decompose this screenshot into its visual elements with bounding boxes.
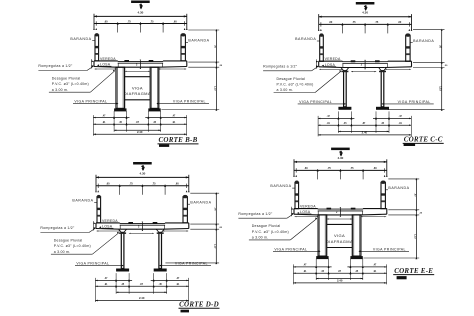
bearing pad left web [119,232,126,234]
bottom flange right girder [350,256,362,259]
svg-text:.75: .75 [129,183,133,186]
viga principal right (web) [379,68,382,71]
under-slab dimension left cantilever [319,68,342,70]
svg-text:.75: .75 [327,167,331,170]
svg-text:.75: .75 [150,20,154,23]
scale bar above CORTE E-E [331,148,350,151]
top segment dimension line [96,185,189,187]
svg-text:Rompegotas a 1/2": Rompegotas a 1/2" [238,212,273,216]
svg-text:4.30: 4.30 [137,10,143,14]
svg-text:BARANDA: BARANDA [188,39,209,43]
section cut symbol CORTE D-D [142,165,144,170]
bearing pad right web [379,71,386,73]
svg-text:CORTE D-D: CORTE D-D [179,300,219,308]
scale bar above CORTE D-D [133,162,152,165]
svg-text:P.V.C. ø3" (L=0.40m): P.V.C. ø3" (L=0.40m) [54,244,91,248]
svg-text:.75: .75 [152,183,156,186]
right vertical dimension chain [441,30,443,110]
viga principal left (web) [341,68,349,71]
under-slab dimension centre [327,218,352,220]
viga diafragma (diaphragm) [125,76,151,78]
svg-text:Desague Pluvial: Desague Pluvial [54,239,83,243]
svg-text:VEREDA: VEREDA [300,205,316,209]
right vertical dimension chain [215,193,217,263]
bottom dimension row 1 (.47) [93,117,129,119]
viga principal right (web) [156,229,159,232]
svg-text:DIAFRAGMA: DIAFRAGMA [124,91,151,96]
svg-text:P.V.C. ø3" (L=0.40m): P.V.C. ø3" (L=0.40m) [277,83,314,87]
viga principal left (column) [318,215,327,256]
under-slab dimension centre [125,70,150,72]
right vertical dimension chain [215,30,217,110]
svg-text:.60: .60 [329,21,333,24]
title scale bar CORTE E-E [397,276,407,279]
svg-text:VEREDA: VEREDA [102,219,118,223]
railing post (baranda) left [320,35,324,61]
bottom dimension row 1 (.47) [318,117,354,119]
title scale bar CORTE B-B [159,144,169,147]
deck slab outline [95,223,97,229]
railing post (baranda) left [295,182,299,208]
bottom dimension row 3 [116,291,167,293]
svg-text:LOSA: LOSA [100,63,111,67]
svg-text:VEREDA: VEREDA [325,57,341,61]
svg-text:.75: .75 [127,20,131,23]
slab surface pad left [124,60,129,62]
svg-text:4.30: 4.30 [139,171,145,175]
bottom dimension row 2 [93,123,186,125]
svg-text:2.40: 2.40 [139,296,145,300]
deck edge thickness arrows left [93,222,95,224]
deck edge thickness arrows left [316,61,318,63]
svg-text:CORTE C-C: CORTE C-C [404,136,443,144]
svg-text:4.30: 4.30 [362,11,368,15]
svg-text:BARANDA: BARANDA [190,200,211,204]
railing post (baranda) right [183,197,187,223]
svg-text:BARANDA: BARANDA [413,39,434,43]
svg-text:.60: .60 [106,183,110,186]
slab surface pad right [149,60,154,62]
bottom flange left girder [114,108,126,111]
svg-text:1.15: 1.15 [439,86,441,91]
bottom dimension row 4 (2.40) [318,134,411,136]
bottom dimension row 2 [318,124,411,126]
deck edge thickness arrows left [291,208,293,210]
svg-text:2.40: 2.40 [337,279,343,283]
bottom dimension row 4 (2.40) [293,282,386,284]
svg-text:.60: .60 [373,167,377,170]
title scale bar CORTE C-C [404,143,416,146]
bottom dimension row 3 [338,130,389,132]
svg-text:P.V.C. ø3" (L=0.40m): P.V.C. ø3" (L=0.40m) [252,230,289,234]
bottom flange right girder [376,107,389,110]
svg-text:1.15: 1.15 [213,86,215,91]
svg-text:P.V.C. ø3" (L=0.40m): P.V.C. ø3" (L=0.40m) [52,82,89,86]
section cut symbol CORTE E-E [340,151,342,156]
deck slab outline [293,209,295,215]
viga principal right (column) [150,67,159,108]
svg-text:VIGA PRINCIPAL: VIGA PRINCIPAL [398,100,431,104]
bottom dimension row 3 [114,129,161,131]
svg-text:VIGA PRINCIPAL: VIGA PRINCIPAL [274,247,307,251]
slab surface pad left [351,60,356,62]
svg-text:LOSA: LOSA [325,63,336,67]
svg-text:Rompegotas a 1/2": Rompegotas a 1/2" [38,64,73,68]
scale bar above CORTE B-B [131,1,150,4]
right vertical dimension chain [415,179,417,258]
svg-text:4.30: 4.30 [337,156,343,160]
bottom dimension row 4 (2.40) [93,133,186,135]
svg-text:.75: .75 [352,21,356,24]
bottom dimension row 4 (2.40) [95,300,188,302]
viga principal right (column) [352,215,361,256]
section cut symbol CORTE C-C [365,5,367,10]
svg-text:Rompegotas a 1/2": Rompegotas a 1/2" [263,64,298,68]
railing post (baranda) right [181,35,185,61]
bottom flange left girder [316,256,328,259]
svg-text:Rompegotas a 1/2": Rompegotas a 1/2" [40,226,75,230]
slab surface pad left [327,208,332,210]
svg-text:a 3.00 m.: a 3.00 m. [252,236,269,240]
top segment dimension line [94,23,187,25]
slab surface pad right [351,208,356,210]
bearing pad right web [157,232,164,234]
svg-text:VIGA PRINCIPAL: VIGA PRINCIPAL [74,100,107,104]
railing post (baranda) left [97,197,101,223]
railing post (baranda) left [95,35,99,61]
slab surface pad right [153,222,158,224]
deck slab outline [93,61,95,67]
deck edge thickness arrows left [91,60,93,62]
svg-text:.60: .60 [398,21,402,24]
svg-text:LOSA: LOSA [300,210,311,214]
svg-text:BARANDA: BARANDA [72,199,93,203]
bottom dim extension lines [317,116,319,136]
scale bar above CORTE C-C [356,2,375,5]
svg-text:VIGA PRINCIPAL: VIGA PRINCIPAL [173,100,206,104]
svg-text:LOSA: LOSA [102,225,113,229]
railing post (baranda) right [406,35,410,61]
bottom dimension row 1 (.47) [95,279,132,281]
svg-text:BARANDA: BARANDA [270,184,291,188]
svg-text:Desague Pluvial: Desague Pluvial [252,224,281,228]
under-slab dimension right cantilever [163,230,189,232]
bottom flange left girder [338,107,351,110]
bottom dim extension lines [94,278,96,302]
svg-text:BARANDA: BARANDA [70,37,91,41]
top segment dimension line [319,23,412,25]
viga diafragma (diaphragm) [327,223,353,225]
svg-text:.60: .60 [173,20,177,23]
svg-text:VEREDA: VEREDA [100,57,116,61]
section cut symbol CORTE B-B [140,4,142,9]
bottom flange left girder [116,269,129,272]
bottom flange right girder [154,269,167,272]
svg-text:VIGA: VIGA [132,85,143,90]
svg-text:VIGA: VIGA [334,233,345,238]
bearing pad left web [341,71,348,73]
slab thickness dim .20 [364,61,366,68]
viga principal left (column) [116,67,125,108]
deck slab outline [318,61,320,67]
svg-text:2.40: 2.40 [137,130,143,134]
title scale bar CORTE D-D [181,310,190,313]
viga principal left (web) [119,229,127,232]
svg-text:Desague Pluvial: Desague Pluvial [52,77,81,81]
bottom dimension row 3 [316,278,363,280]
svg-text:a 3.00 m.: a 3.00 m. [54,250,71,254]
slab thickness dim .20 [139,61,141,68]
slab surface pad left [128,222,133,224]
svg-text:DIAFRAGMA: DIAFRAGMA [326,239,353,244]
bottom dimension row 2 [95,285,188,287]
bottom dimension row 1 (.47) [293,266,331,268]
svg-text:CORTE E-E: CORTE E-E [394,267,433,275]
svg-text:BARANDA: BARANDA [295,37,316,41]
svg-text:Desague Pluvial: Desague Pluvial [277,77,306,81]
under-slab dimension left cantilever [295,216,319,218]
svg-text:1.15: 1.15 [213,244,215,249]
svg-text:1.15: 1.15 [413,234,415,239]
svg-text:a 3.00 m.: a 3.00 m. [52,88,69,92]
svg-text:.60: .60 [104,20,108,23]
svg-text:VIGA PRINCIPAL: VIGA PRINCIPAL [373,247,406,251]
svg-text:VIGA PRINCIPAL: VIGA PRINCIPAL [299,100,332,104]
svg-text:2.40: 2.40 [362,131,368,135]
slab thickness dim .20 [141,223,143,230]
bottom flange right girder [148,108,160,111]
under-slab dimension left cantilever [95,68,117,70]
svg-text:.60: .60 [175,183,179,186]
bottom dim extension lines [292,264,294,284]
bottom dimension row 2 [293,272,386,274]
slab thickness dim .20 [339,209,341,216]
under-slab dimension left cantilever [97,230,121,232]
top segment dimension line [294,169,387,171]
slab surface pad right [375,60,380,62]
under-slab dimension right cantilever [385,68,411,70]
bottom dim extension lines [92,115,94,136]
under-slab dimension centre [129,232,154,234]
svg-text:VIGA PRINCIPAL: VIGA PRINCIPAL [175,262,208,266]
under-slab dimension right cantilever [159,68,187,70]
under-slab dimension right cantilever [361,216,387,218]
svg-text:.75: .75 [375,21,379,24]
under-slab dimension centre [351,71,376,73]
svg-text:a 3.00 m.: a 3.00 m. [277,88,294,92]
svg-text:VIGA PRINCIPAL: VIGA PRINCIPAL [76,262,109,266]
svg-text:CORTE B-B: CORTE B-B [158,136,197,144]
svg-text:.75: .75 [350,167,354,170]
railing post (baranda) right [381,182,385,208]
svg-text:BARANDA: BARANDA [388,186,409,190]
svg-text:.60: .60 [304,167,308,170]
